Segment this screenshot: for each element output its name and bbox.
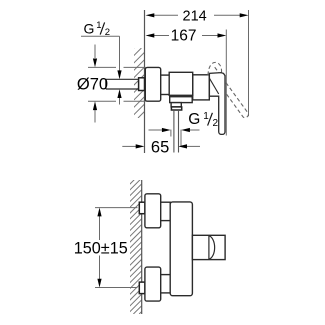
svg-text:150±15: 150±15 — [74, 239, 128, 257]
svg-text:167: 167 — [171, 27, 197, 44]
svg-text:1: 1 — [96, 20, 101, 31]
svg-text:2: 2 — [213, 118, 219, 129]
svg-text:Ø70: Ø70 — [77, 75, 108, 93]
svg-text:1: 1 — [203, 111, 209, 122]
svg-text:G: G — [84, 21, 95, 37]
svg-text:214: 214 — [183, 9, 207, 25]
svg-text:65: 65 — [151, 139, 169, 157]
svg-text:G: G — [188, 111, 200, 128]
svg-text:2: 2 — [105, 27, 110, 38]
